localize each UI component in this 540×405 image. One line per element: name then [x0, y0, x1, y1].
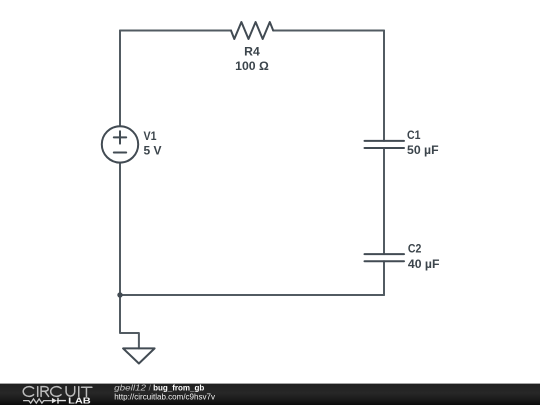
svg-text:gbell12: gbell12	[114, 383, 146, 392]
wire: bottom horizontal segment	[120, 294, 384, 296]
logo letter U	[66, 387, 75, 396]
footer author line	[114, 383, 216, 401]
capacitor C1 bottom plate	[365, 147, 405, 149]
wire: right vertical upper segment	[383, 31, 385, 141]
wire: left vertical upper segment	[119, 31, 121, 127]
node junction dot	[117, 292, 122, 297]
ground symbol triangle	[123, 348, 155, 363]
svg-text:bug_from_gb: bug_from_gb	[153, 383, 204, 392]
voltage source V1 circle	[102, 126, 138, 162]
CircuitLab logo resistor squiggle	[23, 399, 52, 403]
svg-text:V1: V1	[144, 131, 158, 143]
svg-text:50 µF: 50 µF	[407, 145, 439, 157]
logo letter I	[37, 387, 39, 397]
svg-text:100 Ω: 100 Ω	[235, 61, 269, 73]
CircuitLab logo diode symbol	[52, 398, 57, 404]
resistor R4 zigzag	[231, 22, 273, 39]
svg-text:C1: C1	[407, 130, 421, 142]
svg-text:R4: R4	[244, 47, 260, 59]
svg-text:5 V: 5 V	[144, 146, 162, 158]
svg-text:LAB: LAB	[68, 396, 91, 405]
V1 plus sign	[114, 131, 126, 143]
svg-text:40 µF: 40 µF	[408, 259, 440, 271]
capacitor C1 top plate	[365, 140, 405, 142]
wire: right vertical middle segment	[383, 148, 385, 254]
logo letter C	[51, 387, 61, 397]
wire: left vertical lower segment	[119, 163, 121, 295]
logo letter C	[23, 387, 33, 397]
capacitor C2 top plate	[365, 253, 405, 255]
svg-text:http://circuitlab.com/c9hsv7v: http://circuitlab.com/c9hsv7v	[114, 393, 216, 402]
CircuitLab logo wordmark CIRCUIT (vector letters)	[23, 387, 92, 397]
V1 minus sign	[114, 152, 126, 154]
wire: ground lead	[120, 295, 139, 348]
logo letter T	[82, 387, 92, 396]
logo letter R	[41, 387, 49, 397]
capacitor C2 bottom plate	[365, 260, 405, 262]
wire: top-right horizontal segment	[273, 30, 384, 32]
wire: right vertical lower segment	[383, 261, 385, 295]
wire: top-left horizontal segment	[120, 30, 231, 32]
CircuitLab logo wordmark LAB	[68, 396, 91, 405]
logo letter I	[78, 387, 80, 397]
svg-text:C2: C2	[408, 244, 422, 256]
